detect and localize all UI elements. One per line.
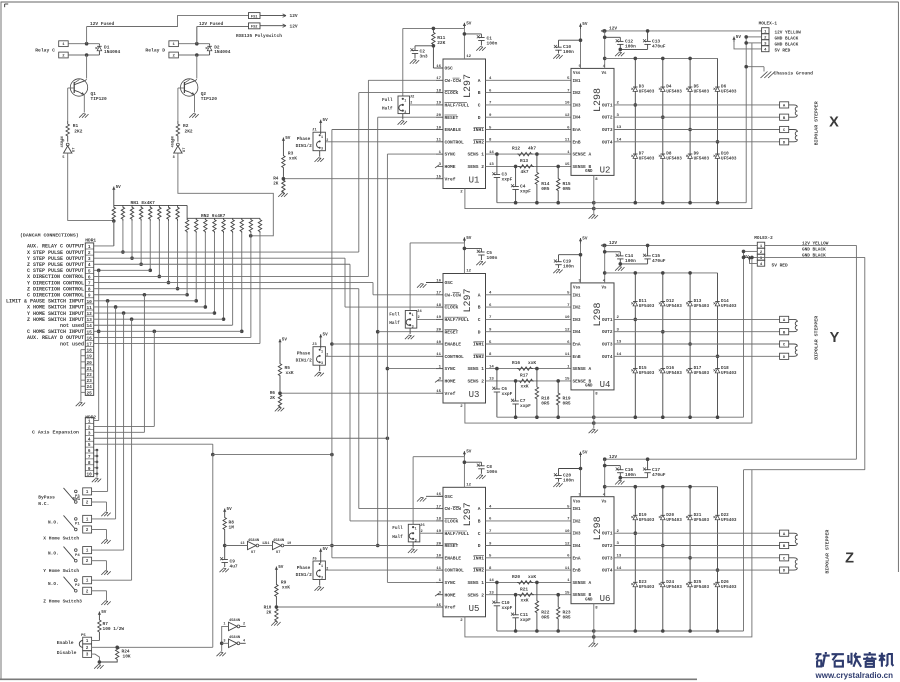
svg-text:UF5403: UF5403 bbox=[639, 371, 655, 376]
svg-text:15: 15 bbox=[565, 378, 570, 382]
wire sense gnd rail bbox=[497, 415, 596, 419]
resistor R2 bbox=[176, 121, 193, 139]
transistor Q2 TIP120 bbox=[181, 79, 218, 102]
svg-text:CLOCK: CLOCK bbox=[445, 90, 459, 96]
labels HDR1 pins bbox=[6, 244, 84, 348]
svg-text:UF5403: UF5403 bbox=[694, 518, 710, 523]
stepper coil bbox=[789, 105, 798, 117]
svg-text:10: 10 bbox=[565, 316, 570, 320]
ground bbox=[101, 540, 110, 544]
ground bbox=[553, 55, 562, 59]
svg-text:12: 12 bbox=[565, 329, 570, 333]
diode D1 bbox=[95, 44, 120, 56]
svg-text:INH2: INH2 bbox=[473, 568, 484, 574]
svg-text:3: 3 bbox=[321, 577, 323, 581]
svg-text:Y HOME SWITCH INPUT: Y HOME SWITCH INPUT bbox=[27, 311, 84, 317]
svg-text:C DIRECTION CONTROL: C DIRECTION CONTROL bbox=[27, 292, 84, 298]
svg-text:xxpF: xxpF bbox=[520, 403, 531, 409]
svg-text:EnB: EnB bbox=[573, 139, 581, 145]
svg-text:3: 3 bbox=[321, 148, 323, 152]
svg-text:SENS 2: SENS 2 bbox=[467, 592, 484, 598]
fuse FS1 bbox=[249, 13, 298, 20]
svg-text:D: D bbox=[478, 329, 481, 335]
svg-text:N.O.: N.O. bbox=[48, 521, 59, 526]
ground bbox=[76, 402, 85, 406]
5V power bbox=[275, 565, 284, 572]
5V power bbox=[223, 507, 232, 514]
svg-text:5V RED: 5V RED bbox=[775, 49, 791, 54]
ground bbox=[79, 114, 88, 118]
svg-text:Vs: Vs bbox=[602, 287, 607, 291]
wire bbox=[92, 640, 100, 642]
svg-text:Y: Y bbox=[830, 330, 840, 346]
wire bbox=[744, 41, 761, 45]
ground bbox=[476, 47, 485, 51]
svg-text:UF5403: UF5403 bbox=[721, 157, 737, 162]
svg-text:IN2: IN2 bbox=[573, 518, 581, 524]
svg-text:U1: U1 bbox=[469, 176, 480, 186]
svg-text:1: 1 bbox=[88, 420, 91, 425]
ground bbox=[408, 549, 417, 553]
svg-text:5V: 5V bbox=[582, 450, 588, 455]
svg-text:SYNC: SYNC bbox=[445, 580, 456, 586]
wire bbox=[139, 221, 143, 266]
svg-text:SYNC: SYNC bbox=[445, 366, 456, 372]
svg-text:CONTROL: CONTROL bbox=[445, 354, 465, 360]
5V power bbox=[463, 21, 472, 28]
svg-text:U5: U5 bbox=[469, 604, 480, 614]
wire HDR2 p5 bbox=[94, 444, 215, 456]
svg-text:IN2: IN2 bbox=[573, 90, 581, 96]
diode D10 bbox=[714, 140, 737, 203]
wire bbox=[178, 88, 184, 121]
switch bbox=[48, 515, 83, 530]
capacitor C16 bbox=[605, 466, 636, 480]
svg-text:SENS 1: SENS 1 bbox=[467, 580, 484, 586]
svg-text:xxK: xxK bbox=[521, 384, 529, 390]
wire bbox=[220, 626, 229, 651]
svg-text:N.O.: N.O. bbox=[48, 552, 59, 557]
svg-text:1: 1 bbox=[415, 528, 417, 532]
svg-text:SENSE B: SENSE B bbox=[573, 592, 592, 598]
label X Home Switch bbox=[43, 536, 79, 542]
connector P2 bbox=[75, 577, 92, 595]
diode D16 bbox=[659, 330, 682, 417]
svg-text:RN2 9x4K7: RN2 9x4K7 bbox=[201, 213, 226, 219]
svg-text:3: 3 bbox=[88, 431, 91, 436]
stepper coil bbox=[789, 130, 798, 142]
resistor R20 bbox=[512, 574, 536, 584]
svg-text:P4: P4 bbox=[75, 554, 80, 558]
wire HDR2 gnd pins bbox=[94, 449, 99, 478]
svg-text:OSC: OSC bbox=[445, 280, 454, 286]
svg-text:INH2: INH2 bbox=[473, 139, 484, 145]
svg-text:12: 12 bbox=[565, 542, 570, 546]
wire HDR1 p1 bbox=[94, 245, 114, 247]
svg-text:A: A bbox=[478, 506, 481, 512]
svg-text:100 1/2W: 100 1/2W bbox=[103, 626, 125, 632]
svg-text:ENABLE: ENABLE bbox=[445, 127, 462, 133]
connector HDR1 bbox=[85, 243, 93, 396]
5V power bbox=[278, 338, 287, 345]
connector Relay D pin1 bbox=[169, 41, 179, 47]
svg-text:10: 10 bbox=[436, 126, 441, 130]
wire L298 pin8 gnd bbox=[593, 175, 595, 214]
wire bbox=[734, 42, 762, 49]
wire bbox=[486, 567, 572, 571]
svg-text:IN3: IN3 bbox=[573, 317, 581, 323]
svg-text:GND: GND bbox=[585, 598, 593, 602]
wire 5V rail bbox=[403, 28, 466, 59]
ground bbox=[217, 652, 226, 656]
wire OUT3 bbox=[614, 555, 780, 559]
ground bbox=[315, 587, 324, 591]
svg-text:(DANCAM CONNECTIONS): (DANCAM CONNECTIONS) bbox=[20, 233, 79, 239]
svg-text:BIPOLAR STEPPER: BIPOLAR STEPPER bbox=[813, 101, 819, 145]
svg-text:12V: 12V bbox=[609, 26, 617, 32]
wire L297 pin2 gnd bbox=[465, 617, 596, 639]
wire Y STEP bbox=[94, 258, 436, 307]
svg-text:SENSE B: SENSE B bbox=[573, 164, 592, 170]
svg-text:X Home Switch: X Home Switch bbox=[43, 536, 79, 542]
svg-text:not used: not used bbox=[60, 323, 84, 329]
svg-text:OUT4: OUT4 bbox=[602, 354, 613, 360]
wire diode top rail bbox=[605, 57, 718, 61]
svg-text:20: 20 bbox=[436, 542, 441, 546]
label DANCAM bbox=[20, 233, 79, 239]
svg-text:6: 6 bbox=[88, 449, 91, 454]
diode D12 bbox=[659, 273, 682, 332]
inverter U7 gate A bbox=[61, 136, 76, 160]
wire reset/enable net bbox=[225, 545, 436, 547]
wire L297 pin2 gnd bbox=[465, 403, 596, 425]
inverter U7 gate B bbox=[171, 136, 186, 160]
svg-text:P1: P1 bbox=[75, 523, 80, 527]
svg-text:UF5403: UF5403 bbox=[721, 371, 737, 376]
stepper coil bbox=[789, 533, 798, 545]
svg-text:4: 4 bbox=[88, 437, 91, 442]
wire gnd return bbox=[743, 470, 745, 631]
wire AUX D bbox=[94, 336, 251, 338]
inverter U7 gate D bbox=[265, 539, 291, 555]
resistor R7 bbox=[98, 617, 125, 641]
svg-text:R12: R12 bbox=[512, 146, 520, 152]
svg-text:25: 25 bbox=[86, 390, 92, 396]
ground bbox=[220, 568, 229, 572]
wire OUT1 bbox=[614, 316, 780, 320]
ground bbox=[615, 478, 624, 485]
svg-text:N.O.: N.O. bbox=[48, 582, 59, 587]
svg-text:xxK: xxK bbox=[521, 597, 529, 603]
wire Vs feed bbox=[603, 245, 607, 283]
wire bbox=[410, 104, 436, 106]
wire diode bottom rail bbox=[594, 201, 746, 205]
jumper J6 Full/Half bbox=[392, 524, 425, 548]
svg-text:INH1: INH1 bbox=[473, 127, 484, 133]
svg-text:13: 13 bbox=[489, 592, 494, 596]
wire gnd return bbox=[743, 251, 745, 417]
svg-text:Enable: Enable bbox=[57, 640, 74, 646]
svg-text:A: A bbox=[478, 292, 481, 298]
label 5V RED bbox=[772, 262, 789, 268]
svg-text:12: 12 bbox=[466, 55, 471, 59]
svg-text:3: 3 bbox=[415, 540, 417, 544]
diode D5 bbox=[686, 58, 709, 129]
svg-text:RN1 8x4K7: RN1 8x4K7 bbox=[131, 200, 156, 206]
wire RESET bus bbox=[376, 117, 436, 547]
wire Z STEP bbox=[94, 264, 436, 521]
5V power bbox=[732, 35, 741, 42]
connector P5 bbox=[57, 634, 92, 658]
wire enable net bbox=[92, 646, 213, 650]
svg-text:100n: 100n bbox=[625, 44, 636, 50]
ground bbox=[278, 193, 287, 197]
svg-text:20: 20 bbox=[436, 329, 441, 333]
svg-text:CLOCK: CLOCK bbox=[445, 305, 459, 311]
svg-text:5V RED: 5V RED bbox=[772, 262, 789, 268]
wire sense gnd rail bbox=[497, 201, 596, 205]
svg-text:15: 15 bbox=[436, 390, 441, 394]
wire bbox=[68, 53, 99, 78]
wire gnd return bbox=[745, 37, 747, 203]
wire OUT2 bbox=[614, 542, 780, 546]
wire SENSE B bbox=[486, 163, 572, 168]
svg-text:5V: 5V bbox=[582, 237, 588, 242]
ground bbox=[101, 512, 110, 516]
connector J5 Phase bbox=[296, 554, 329, 586]
svg-text:2: 2 bbox=[243, 623, 245, 627]
wire bbox=[259, 233, 261, 344]
svg-text:GND: GND bbox=[585, 385, 593, 389]
ground bbox=[589, 643, 598, 647]
svg-text:xxK: xxK bbox=[286, 370, 294, 376]
wire 12V to Z bbox=[765, 245, 857, 459]
svg-text:13: 13 bbox=[489, 163, 494, 167]
wire bbox=[92, 502, 107, 512]
svg-text:9: 9 bbox=[173, 140, 175, 144]
wire OUT4 bbox=[614, 567, 780, 571]
svg-text:17: 17 bbox=[436, 292, 441, 296]
svg-text:19: 19 bbox=[436, 102, 441, 106]
wire sense gnd line bbox=[594, 470, 752, 637]
wire bbox=[178, 153, 273, 238]
svg-text:TIP120: TIP120 bbox=[201, 96, 218, 102]
diode D4 bbox=[659, 58, 682, 117]
svg-text:10: 10 bbox=[565, 102, 570, 106]
wire SENSE B bbox=[486, 378, 572, 383]
wire bbox=[325, 141, 435, 143]
svg-text:MOLEX-1: MOLEX-1 bbox=[759, 22, 778, 27]
svg-text:xxpF: xxpF bbox=[502, 391, 513, 397]
wire Vs feed bbox=[603, 459, 607, 497]
svg-text:C STEP PULSE OUTPUT: C STEP PULSE OUTPUT bbox=[27, 268, 84, 274]
svg-text:4u7: 4u7 bbox=[230, 564, 238, 570]
svg-text:18: 18 bbox=[436, 89, 441, 93]
svg-text:UF5403: UF5403 bbox=[666, 371, 682, 376]
wire bbox=[83, 95, 85, 112]
svg-text:xxpF: xxpF bbox=[502, 605, 513, 611]
capacitor C11 bbox=[511, 595, 531, 631]
capacitor C1 bbox=[464, 34, 497, 47]
svg-text:B: B bbox=[478, 519, 481, 525]
connector MOLEX-1 bbox=[759, 22, 778, 53]
svg-text:RESET: RESET bbox=[445, 329, 459, 335]
svg-text:12: 12 bbox=[466, 270, 471, 274]
L298 U6 bbox=[571, 493, 614, 610]
wire Vref bbox=[282, 177, 436, 181]
capacitor C2 bbox=[410, 46, 433, 60]
svg-text:Phase: Phase bbox=[297, 136, 311, 142]
ground bbox=[553, 269, 562, 273]
ground bbox=[615, 264, 624, 271]
wire OUT3 bbox=[614, 126, 780, 130]
wire bbox=[579, 244, 583, 283]
wire bbox=[486, 341, 572, 345]
wire bbox=[486, 114, 572, 118]
svg-text:TIP120: TIP120 bbox=[91, 96, 108, 102]
diode D11 bbox=[631, 273, 654, 320]
ground bbox=[101, 571, 110, 575]
diode D21 bbox=[686, 487, 709, 558]
label axis letter bbox=[845, 551, 854, 567]
svg-text:EnA: EnA bbox=[573, 127, 581, 133]
svg-text:13: 13 bbox=[489, 378, 494, 382]
svg-text:UF5403: UF5403 bbox=[666, 585, 682, 590]
svg-text:GND BLACK: GND BLACK bbox=[802, 248, 826, 253]
svg-text:12V: 12V bbox=[609, 454, 617, 460]
wire diode bottom rail bbox=[594, 415, 744, 419]
5V power bbox=[112, 185, 121, 192]
wire bbox=[325, 569, 435, 571]
svg-text:4: 4 bbox=[243, 639, 245, 643]
svg-text:Vref: Vref bbox=[445, 176, 456, 182]
connector HDR2 bbox=[85, 418, 93, 478]
resistor R13 bbox=[518, 158, 534, 175]
svg-text:2K2: 2K2 bbox=[74, 128, 82, 134]
svg-text:A: A bbox=[478, 78, 481, 84]
L298 U2 bbox=[571, 65, 614, 182]
svg-text:UF5403: UF5403 bbox=[721, 585, 737, 590]
svg-text:FS1: FS1 bbox=[251, 15, 258, 19]
5V power bbox=[579, 237, 588, 244]
wire bbox=[176, 221, 180, 290]
svg-text:Vss: Vss bbox=[573, 500, 581, 504]
wire Z DIR bbox=[94, 289, 436, 509]
svg-text:100n: 100n bbox=[625, 472, 636, 478]
svg-text:Half: Half bbox=[389, 321, 400, 326]
svg-text:3n3: 3n3 bbox=[420, 54, 428, 60]
svg-text:R20: R20 bbox=[512, 574, 520, 580]
wire 5V rail bbox=[413, 457, 466, 488]
wire bbox=[222, 233, 226, 321]
svg-text:FS2: FS2 bbox=[251, 26, 258, 30]
svg-text:IN3: IN3 bbox=[573, 531, 581, 537]
wire SYNC bus bbox=[386, 154, 436, 582]
wire Y HOME bbox=[92, 311, 214, 550]
svg-text:Phase: Phase bbox=[297, 351, 311, 357]
capacitor C8 bbox=[464, 462, 497, 475]
svg-text:EnA: EnA bbox=[573, 342, 581, 348]
capacitor C5 bbox=[464, 248, 497, 261]
wire bbox=[486, 139, 572, 143]
capacitor C9 bbox=[220, 546, 238, 570]
wire 12V fused D bbox=[197, 21, 249, 44]
svg-text:SENSE A: SENSE A bbox=[573, 152, 592, 158]
label axis letter bbox=[829, 115, 839, 131]
svg-text:IN3: IN3 bbox=[573, 102, 581, 108]
svg-text:L297: L297 bbox=[463, 288, 474, 312]
svg-text:SENSE A: SENSE A bbox=[573, 366, 592, 372]
stepper coil bbox=[789, 344, 798, 356]
svg-text:C: C bbox=[478, 531, 481, 537]
connector P4 bbox=[75, 547, 92, 565]
svg-text:19: 19 bbox=[436, 316, 441, 320]
wire bbox=[68, 153, 116, 246]
svg-text:11: 11 bbox=[565, 139, 570, 143]
svg-text:SENS 2: SENS 2 bbox=[467, 379, 484, 385]
wire bbox=[409, 243, 411, 311]
svg-text:UF5403: UF5403 bbox=[721, 518, 737, 523]
svg-text:IN4: IN4 bbox=[573, 115, 581, 121]
5V power bbox=[319, 118, 328, 125]
svg-text:0R5: 0R5 bbox=[541, 186, 549, 192]
diode D25 bbox=[686, 556, 709, 631]
wire diode top rail bbox=[605, 485, 718, 489]
wire bbox=[113, 221, 115, 246]
svg-text:HOME: HOME bbox=[445, 164, 456, 170]
svg-text:DIN1/2: DIN1/2 bbox=[296, 143, 313, 149]
capacitor C7 bbox=[511, 381, 531, 417]
5V power bbox=[98, 610, 107, 617]
resistor network RN1 8x4K7 bbox=[112, 192, 187, 221]
wire bbox=[250, 233, 252, 337]
svg-text:INH2: INH2 bbox=[473, 354, 484, 360]
wire Z HOME bbox=[92, 317, 223, 580]
svg-text:D: D bbox=[478, 115, 481, 121]
ground bbox=[417, 496, 443, 501]
svg-text:4k7: 4k7 bbox=[528, 146, 536, 152]
svg-text:14: 14 bbox=[489, 151, 494, 155]
diode D8 bbox=[659, 115, 682, 202]
svg-text:5V: 5V bbox=[116, 185, 122, 190]
svg-text:11: 11 bbox=[436, 567, 441, 571]
svg-text:14: 14 bbox=[617, 353, 622, 357]
connector stepper Z bbox=[780, 530, 789, 574]
svg-text:14: 14 bbox=[489, 365, 494, 369]
svg-text:2K2: 2K2 bbox=[185, 128, 193, 134]
svg-text:0R5: 0R5 bbox=[563, 401, 571, 407]
svg-text:12V: 12V bbox=[290, 23, 298, 29]
wire X DIR bbox=[94, 80, 436, 276]
5V power bbox=[319, 547, 328, 554]
svg-text:UF5403: UF5403 bbox=[666, 90, 682, 95]
5V power bbox=[463, 236, 472, 243]
ground bbox=[271, 621, 280, 625]
svg-text:5V: 5V bbox=[227, 507, 233, 512]
svg-text:15: 15 bbox=[565, 163, 570, 167]
svg-text:12: 12 bbox=[565, 114, 570, 118]
svg-text:OUT2: OUT2 bbox=[602, 543, 613, 549]
svg-text:CONTROL: CONTROL bbox=[445, 139, 465, 145]
label Relay C bbox=[35, 47, 55, 53]
wire HDR1 gnd pins bbox=[81, 350, 85, 402]
chassis ground bbox=[761, 71, 814, 79]
wire Y DIR bbox=[94, 283, 436, 295]
svg-text:R1: R1 bbox=[73, 123, 79, 129]
svg-text:OUT4: OUT4 bbox=[602, 139, 613, 145]
ground bbox=[476, 475, 485, 479]
connector J3 Phase bbox=[296, 340, 329, 372]
